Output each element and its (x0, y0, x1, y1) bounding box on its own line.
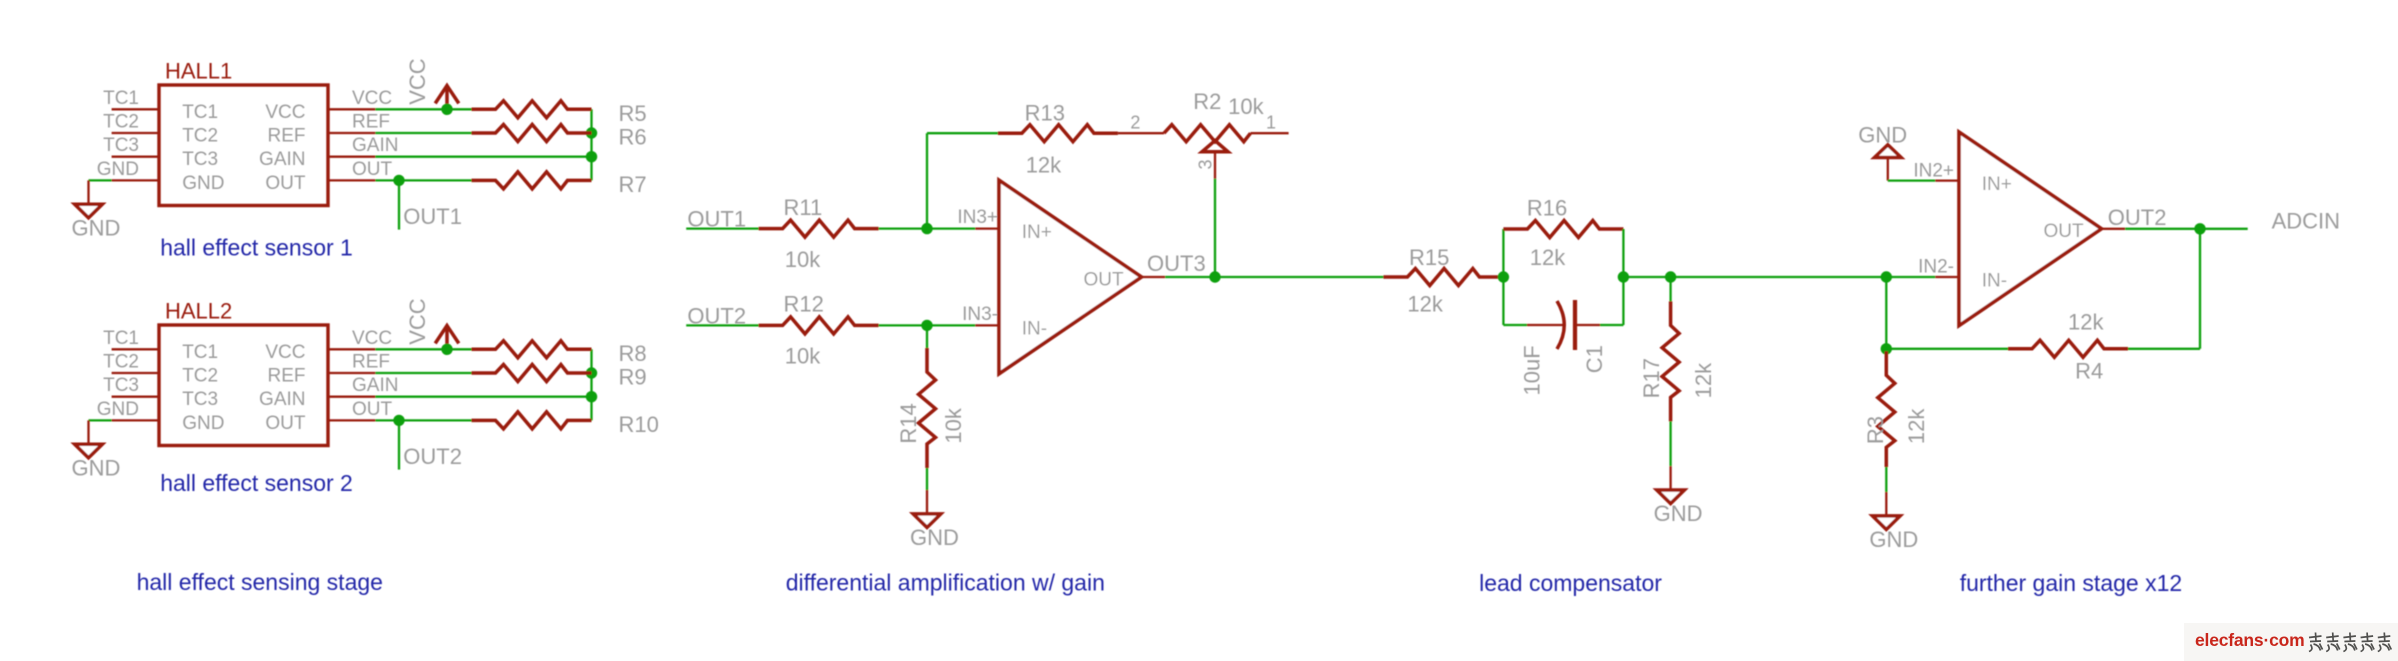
svg-text:TC1: TC1 (103, 88, 139, 109)
HALL1 pin GND (left) (112, 179, 159, 181)
svg-text:C1: C1 (1582, 345, 1607, 373)
wire OUT2 stub down (398, 420, 400, 469)
junction GAIN bus (HALL1) (586, 151, 597, 162)
wire R4 left (1886, 348, 2008, 350)
svg-text:OUT2: OUT2 (2108, 205, 2167, 230)
svg-text:lead compensator: lead compensator (1479, 570, 1662, 596)
svg-text:GND: GND (72, 215, 121, 240)
junction R17 tap (1665, 271, 1676, 282)
HALL1 pin OUT (right) (328, 179, 375, 181)
svg-text:R9: R9 (619, 365, 647, 390)
svg-text:VCC: VCC (352, 328, 392, 349)
wire R2 wiper to output net (1214, 179, 1216, 277)
junction GAIN bus (HALL2) (586, 391, 597, 402)
svg-text:GAIN: GAIN (259, 389, 305, 410)
svg-text:R7: R7 (619, 172, 647, 197)
resistor R4 (2008, 340, 2128, 357)
svg-text:REF: REF (268, 366, 306, 387)
wire R12 to IN3- junction (879, 324, 976, 326)
VCC supply symbol (HALL1) (445, 86, 449, 110)
svg-text:GND: GND (182, 173, 224, 194)
resistor R11 (759, 220, 879, 237)
resistor R10 (472, 412, 592, 429)
junction R15/R16/C1 left (1498, 271, 1509, 282)
svg-text:elecfans·com: elecfans·com (2195, 630, 2304, 650)
wire right riser down from R16 (1622, 229, 1624, 277)
svg-text:REF: REF (352, 112, 390, 133)
resistor R3 (1878, 351, 1895, 467)
op-amp U2 output pin (2102, 228, 2126, 230)
svg-text:R10: R10 (619, 412, 659, 437)
junction REF bus (HALL2) (586, 367, 597, 378)
ground (R14) (926, 490, 928, 514)
op-amp U2 triangle (1959, 132, 2102, 326)
svg-text:TC3: TC3 (182, 149, 218, 170)
wire right riser up from C1 (1622, 277, 1624, 325)
R2 wiper pin 3 (1214, 152, 1216, 179)
resistor R12 (759, 317, 879, 334)
wire OUT2 to R12 (686, 324, 758, 326)
resistor R14 (919, 348, 936, 468)
HALL1 pin TC2 (left) (112, 132, 159, 134)
HALL1 pin GAIN (right) (328, 156, 375, 158)
svg-text:TC3: TC3 (103, 375, 139, 396)
svg-text:10k: 10k (941, 407, 966, 443)
svg-text:OUT: OUT (352, 399, 393, 420)
junction VCC (HALL1) (441, 104, 452, 115)
resistor R5 (472, 101, 592, 118)
svg-text:VCC: VCC (265, 342, 305, 363)
svg-text:OUT1: OUT1 (403, 204, 462, 229)
wire HALL1 VCC pin to R5 (375, 108, 471, 110)
svg-text:R3: R3 (1863, 416, 1888, 444)
HALL1 pin REF (right) (328, 132, 375, 134)
HALL1 pin TC3 (left) (112, 156, 159, 158)
svg-text:GND: GND (1869, 527, 1918, 552)
junction OUT2/R4 (2194, 223, 2205, 234)
svg-text:further gain stage x12: further gain stage x12 (1960, 570, 2182, 596)
hall sensor HALL2 box (159, 325, 328, 446)
svg-text:R12: R12 (784, 292, 824, 317)
svg-text:REF: REF (268, 126, 306, 147)
R2 pin 1 lead (1251, 132, 1289, 134)
junction IN3- (921, 320, 932, 331)
capacitor C1 (1527, 324, 1564, 326)
svg-text:TC3: TC3 (103, 135, 139, 156)
resistor R9 (472, 365, 592, 382)
svg-text:R14: R14 (896, 403, 921, 443)
svg-text:12k: 12k (1530, 245, 1566, 270)
svg-text:GAIN: GAIN (259, 149, 305, 170)
HALL2 pin TC2 (left) (112, 372, 159, 374)
svg-text:IN-: IN- (1022, 318, 1047, 339)
ground (HALL1) (87, 180, 89, 204)
wire R4 right and riser to output (2128, 348, 2200, 350)
resistor R17 (1662, 301, 1679, 421)
svg-text:IN3-: IN3- (962, 304, 998, 325)
svg-text:TC2: TC2 (182, 366, 218, 387)
svg-text:VCC: VCC (352, 88, 392, 109)
op-amp U1 output pin (1142, 276, 1166, 278)
svg-text:OUT: OUT (265, 413, 306, 434)
junction OUT2 tap (393, 415, 404, 426)
junction IN2- (1881, 271, 1892, 282)
resistor R15 (1383, 269, 1503, 286)
junction R16/C1 right (1618, 271, 1629, 282)
wire R3 top (1885, 349, 1887, 365)
wire feedback top to R13 (927, 132, 998, 134)
svg-text:R13: R13 (1025, 101, 1065, 126)
resistor R13 (998, 125, 1118, 142)
VCC supply symbol (HALL2) (445, 326, 449, 350)
svg-text:IN3+: IN3+ (957, 207, 998, 228)
svg-text:10k: 10k (785, 247, 821, 272)
wire R13 to R2 pin 2 (1118, 132, 1164, 134)
wire HALL1 GAIN pin to right bus (375, 156, 591, 158)
svg-text:GND: GND (97, 399, 139, 420)
wire OUT1 stub down (398, 180, 400, 229)
ground (R17) (1669, 466, 1671, 490)
svg-text:TC1: TC1 (182, 102, 218, 123)
op-amp U1 pin IN3- (975, 324, 999, 326)
svg-text:R15: R15 (1409, 245, 1449, 270)
wire HALL2 GND pin to ground (89, 419, 112, 421)
svg-text:differential amplification w/: differential amplification w/ gain (786, 570, 1105, 596)
wire HALL2 GAIN pin to right bus (375, 396, 591, 398)
junction OUT3 (1209, 271, 1220, 282)
svg-text:R4: R4 (2075, 359, 2103, 384)
wire U1 output to R15 (1165, 276, 1383, 278)
svg-text:OUT3: OUT3 (1147, 251, 1206, 276)
wire left riser up to R16 (1502, 229, 1504, 277)
svg-text:OUT: OUT (265, 173, 306, 194)
wire HALL1 OUT pin to R7 (375, 179, 471, 181)
svg-text:R16: R16 (1527, 196, 1567, 221)
junction IN3+ (921, 223, 932, 234)
svg-text:OUT2: OUT2 (403, 444, 462, 469)
svg-text:IN-: IN- (1982, 270, 2007, 291)
HALL2 pin GAIN (right) (328, 396, 375, 398)
wire HALL2 OUT pin to R10 (375, 419, 471, 421)
wire OUT1 to R11 (686, 227, 758, 229)
svg-text:TC1: TC1 (182, 342, 218, 363)
svg-text:HALL2: HALL2 (165, 298, 232, 323)
svg-text:HALL1: HALL1 (165, 58, 232, 83)
svg-text:12k: 12k (1691, 362, 1716, 398)
HALL2 pin REF (right) (328, 372, 375, 374)
op-amp U1 pin IN3+ (975, 227, 999, 229)
op-amp U1 triangle (999, 180, 1142, 374)
svg-text:3: 3 (1196, 159, 1216, 169)
svg-text:IN+: IN+ (1022, 222, 1052, 243)
wire R17 bottom to ground (1669, 421, 1671, 466)
svg-text:TC2: TC2 (182, 126, 218, 147)
svg-text:OUT: OUT (1084, 269, 1125, 290)
op-amp U2 pin IN2- (1935, 276, 1959, 278)
svg-text:R2: R2 (1193, 89, 1221, 114)
wire C1 left lead (1503, 324, 1527, 326)
HALL2 pin GND (left) (112, 419, 159, 421)
svg-text:OUT: OUT (2044, 221, 2085, 242)
svg-text:10k: 10k (1228, 94, 1264, 119)
svg-text:GND: GND (1654, 501, 1703, 526)
ground (HALL2) (87, 420, 89, 444)
svg-text:R17: R17 (1639, 358, 1664, 398)
wire R17 top (1669, 277, 1671, 301)
resistor R8 (472, 341, 592, 358)
wire GND to IN2+ (1888, 179, 1936, 181)
svg-text:R6: R6 (619, 125, 647, 150)
svg-text:IN2+: IN2+ (1913, 160, 1954, 181)
svg-text:GND: GND (182, 413, 224, 434)
junction REF bus (HALL1) (586, 127, 597, 138)
wire R14 top (926, 325, 928, 350)
wire right vertical bus (HALL2) (590, 349, 592, 420)
svg-text:10uF: 10uF (1520, 345, 1545, 395)
svg-text:VCC: VCC (405, 298, 430, 345)
svg-text:GND: GND (72, 455, 121, 480)
wire to R17 junction and on to U2 (1623, 276, 1935, 278)
svg-text:IN+: IN+ (1982, 174, 2012, 195)
op-amp U2 pin IN2+ (1935, 179, 1959, 181)
potentiometer R2 (1164, 125, 1251, 142)
svg-text:10k: 10k (785, 344, 821, 369)
svg-text:1: 1 (1266, 112, 1276, 132)
wire R14 bottom to ground (926, 468, 928, 490)
svg-text:OUT: OUT (352, 159, 393, 180)
svg-text:TC3: TC3 (182, 389, 218, 410)
svg-text:VCC: VCC (265, 102, 305, 123)
wire HALL2 VCC pin to R8 (375, 348, 471, 350)
ground (R3) (1885, 492, 1887, 516)
svg-text:12k: 12k (1407, 292, 1443, 317)
wire C1 right lead (1600, 324, 1623, 326)
wire R3 bottom to ground (1885, 467, 1887, 492)
wire HALL1 GND pin to ground (89, 179, 112, 181)
resistor R7 (472, 172, 592, 189)
svg-text:GAIN: GAIN (352, 135, 398, 156)
wire HALL2 REF pin to R9 (375, 372, 471, 374)
watermark elecfans logo (2184, 623, 2398, 661)
svg-text:IN2-: IN2- (1918, 257, 1954, 278)
svg-text:12k: 12k (1026, 153, 1062, 178)
svg-text:hall effect sensing stage: hall effect sensing stage (137, 569, 383, 595)
wire U2 output to ADCIN (2125, 228, 2248, 230)
wire left drop to C1 (1502, 277, 1504, 325)
resistor R6 (472, 125, 592, 142)
HALL1 pin VCC (right) (328, 108, 375, 110)
wire R11 to IN3+ junction (879, 227, 976, 229)
HALL1 pin TC1 (left) (112, 108, 159, 110)
svg-text:R5: R5 (619, 101, 647, 126)
resistor R16 (1503, 221, 1623, 238)
HALL2 pin TC3 (left) (112, 396, 159, 398)
HALL2 pin TC1 (left) (112, 348, 159, 350)
wire feedback riser (926, 133, 928, 228)
junction VCC (HALL2) (441, 344, 452, 355)
svg-text:ADCIN: ADCIN (2272, 208, 2340, 233)
svg-text:R11: R11 (784, 195, 823, 220)
HALL2 pin OUT (right) (328, 419, 375, 421)
svg-text:12k: 12k (2068, 310, 2104, 335)
wire HALL1 REF pin to R6 (375, 132, 471, 134)
svg-text:GAIN: GAIN (352, 375, 398, 396)
wire feedback drop IN2- to R3/R4 (1885, 277, 1887, 349)
svg-text:hall effect sensor 2: hall effect sensor 2 (160, 470, 353, 496)
svg-text:R8: R8 (619, 341, 647, 366)
svg-text:GND: GND (97, 159, 139, 180)
svg-text:TC1: TC1 (103, 328, 139, 349)
svg-text:GND: GND (1858, 122, 1907, 147)
junction OUT1 tap (393, 175, 404, 186)
svg-text:TC2: TC2 (103, 352, 139, 373)
svg-text:GND: GND (910, 525, 959, 550)
junction R3/R4 (1881, 343, 1892, 354)
svg-text:TC2: TC2 (103, 112, 139, 133)
HALL2 pin VCC (right) (328, 348, 375, 350)
svg-text:VCC: VCC (405, 58, 430, 105)
svg-text:REF: REF (352, 352, 390, 373)
svg-text:12k: 12k (1904, 408, 1929, 444)
hall sensor HALL1 box (159, 85, 328, 206)
svg-text:2: 2 (1130, 112, 1140, 132)
svg-text:hall effect sensor 1: hall effect sensor 1 (160, 235, 353, 261)
wire right vertical bus (HALL1) (590, 109, 592, 180)
ground (U2 IN2+) (1875, 145, 1902, 158)
